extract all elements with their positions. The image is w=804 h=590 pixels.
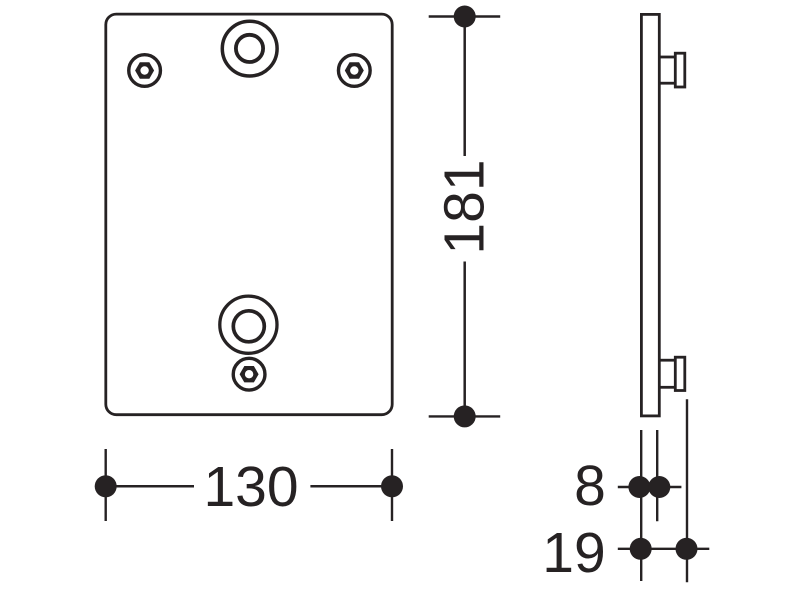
side view bottom pin neck — [660, 360, 675, 387]
dimension 181 label — [433, 159, 497, 254]
dimension 19 right dot — [676, 538, 698, 560]
dimension 130 right tick — [391, 449, 393, 521]
dimension 130 left dot — [95, 475, 117, 497]
svg-text:181: 181 — [433, 159, 497, 254]
svg-text:19: 19 — [542, 521, 605, 585]
extension line from pin cap — [686, 399, 688, 582]
extension line from side plate left edge — [640, 430, 642, 581]
top-left hex screw — [129, 55, 161, 87]
dimension 181 vertical line lower segment — [463, 262, 466, 417]
dimension 8 left dot — [628, 476, 650, 498]
dimension 19 left dot — [630, 538, 652, 560]
bottom center mounting hole (double circle) — [220, 296, 277, 353]
dimension 8 line — [618, 486, 682, 488]
side view top pin neck — [660, 57, 675, 83]
top center mounting hole (double circle) — [222, 21, 277, 76]
extension line from side plate right edge — [656, 430, 658, 521]
svg-text:8: 8 — [574, 454, 606, 518]
dimension 130 line right segment — [310, 485, 392, 488]
dimension 181 vertical line upper segment — [463, 17, 466, 157]
dimension 130 label — [203, 455, 298, 519]
dimension 19 label — [542, 521, 605, 585]
dimension 8 label — [574, 454, 606, 518]
side view bottom pin cap — [675, 357, 685, 390]
dimension 181 top dot — [454, 6, 476, 28]
bottom hex screw — [233, 358, 265, 390]
side view plate outline — [641, 14, 659, 416]
dimension 181 top tick — [429, 15, 501, 17]
dimension 181 bottom dot — [454, 405, 476, 427]
dimension 8 right dot — [648, 476, 670, 498]
side view top pin cap — [675, 53, 685, 87]
dimension 181 bottom tick — [429, 415, 501, 417]
dimension 19 line — [618, 548, 710, 550]
front view plate outline — [106, 14, 392, 415]
dimension 130 right dot — [381, 475, 403, 497]
dimension 130 left tick — [104, 449, 106, 521]
svg-text:130: 130 — [203, 455, 298, 519]
dimension 130 line left segment — [106, 485, 194, 488]
top-right hex screw — [338, 55, 370, 87]
